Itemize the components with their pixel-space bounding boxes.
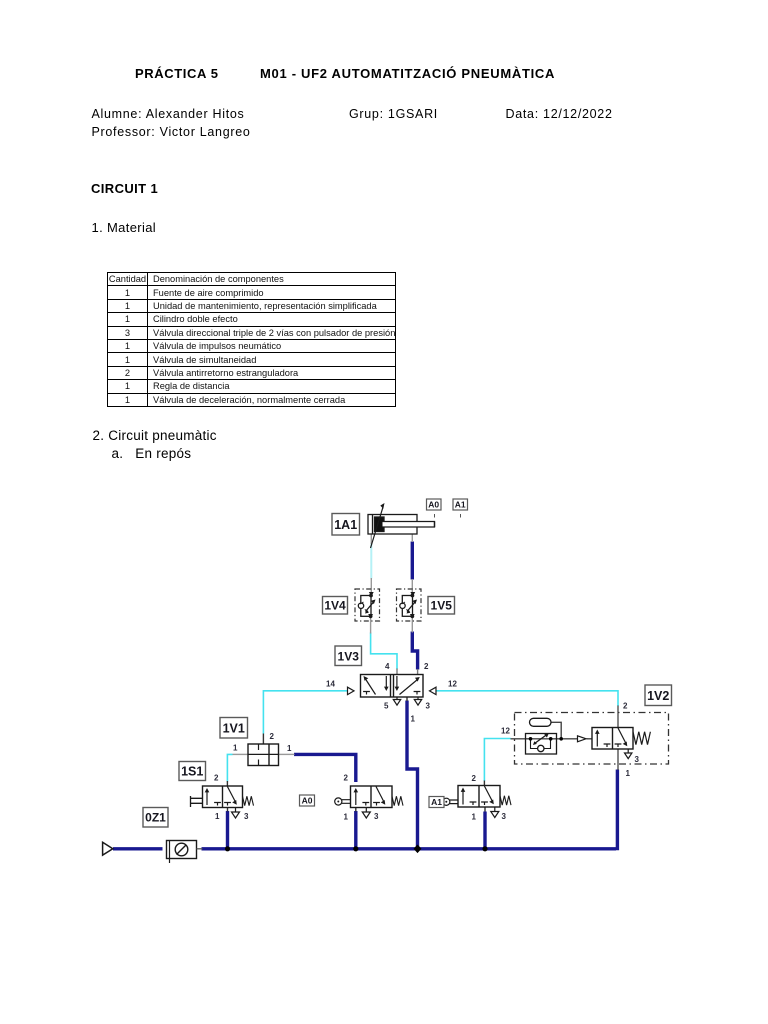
label box 1A1 bbox=[332, 514, 360, 536]
1V3 right cell flow paths bbox=[395, 676, 421, 695]
wire: 1V4 to 1V3 port 4 bbox=[371, 633, 397, 670]
svg-text:A0: A0 bbox=[302, 796, 313, 806]
stub: 1V3 port 4 bbox=[396, 669, 398, 675]
wire: supply bus main segment with riser to 1V2 port 1 bbox=[202, 770, 618, 851]
wire: pilot 14 from 1V1 port 2 bbox=[263, 691, 347, 734]
junction on bus at A0 bbox=[353, 846, 358, 851]
1V2 exhaust triangle port 3 bbox=[625, 749, 632, 759]
1V3 left cell flow paths bbox=[363, 676, 389, 695]
svg-text:2: 2 bbox=[623, 702, 628, 711]
1V5 flow control valve (dashed frame) bbox=[397, 589, 422, 621]
svg-text:3: 3 bbox=[502, 812, 507, 821]
valve 1V1 two-pressure (AND) body bbox=[248, 744, 279, 766]
1S1 return spring bbox=[243, 796, 254, 805]
svg-text:1: 1 bbox=[287, 744, 292, 753]
svg-text:2: 2 bbox=[472, 774, 477, 783]
svg-text:1: 1 bbox=[344, 813, 349, 822]
wire: cylinder right port to 1V5 bbox=[411, 542, 414, 580]
stub: 1S1 port 1 bbox=[227, 808, 229, 812]
1S1 exhaust triangle port 3 bbox=[232, 808, 240, 819]
1V2 valve left cell (pass) bbox=[595, 730, 610, 748]
svg-text:0Z1: 0Z1 bbox=[145, 811, 166, 825]
1V2 deceleration valve dashed frame bbox=[515, 713, 669, 765]
1V1 port numbers bbox=[233, 732, 292, 753]
stub: cylinder left port bbox=[370, 534, 372, 544]
wire: 1V5 to 1V3 port 2 (with jog) bbox=[412, 632, 417, 670]
wire: pilot 12 from 1V2 port 2 bbox=[436, 691, 618, 706]
wire: A1 port 2 to 1V2 port 12 bbox=[484, 739, 510, 782]
stub: 1V5 bottom bbox=[411, 616, 413, 633]
valve 1V3 5/2 impulse valve body bbox=[361, 675, 424, 698]
1V2 internal supply line bbox=[511, 722, 593, 739]
svg-text:1V1: 1V1 bbox=[223, 722, 245, 736]
1V4 flow control valve (dashed frame) bbox=[355, 589, 380, 621]
svg-text:3: 3 bbox=[244, 812, 249, 821]
A1 roller actuator bbox=[443, 798, 458, 805]
wire: A1 port 1 drop bbox=[483, 812, 486, 849]
stub: 1V1 port 2 bbox=[262, 734, 264, 745]
label box A0 bbox=[300, 795, 315, 806]
stub: 1V1 port 1 right bbox=[279, 753, 295, 755]
valve 1S1 3/2 push button body bbox=[203, 786, 243, 808]
junction on bus at A1 bbox=[482, 846, 487, 851]
svg-text:5: 5 bbox=[384, 702, 389, 711]
wire: supply bus left segment bbox=[113, 847, 163, 850]
wire: 1S1 port 1 drop bbox=[226, 811, 229, 848]
1V2 valve right cell (exhaust) bbox=[615, 728, 628, 747]
1V2 3/2 valve body bbox=[592, 728, 633, 750]
1V2 port numbers bbox=[501, 702, 640, 779]
1V2 flow control junction dots bbox=[529, 737, 563, 741]
valve A1 3/2 roller body bbox=[458, 786, 500, 808]
svg-text:1S1: 1S1 bbox=[181, 765, 203, 779]
1S1 port numbers bbox=[214, 774, 249, 822]
cylinder position arrow bbox=[371, 503, 385, 548]
stub: cylinder right port bbox=[411, 534, 413, 542]
stub: 1V3 port 1 bbox=[406, 697, 408, 701]
svg-text:1V3: 1V3 bbox=[338, 650, 360, 664]
label box 1V3 bbox=[335, 646, 362, 666]
svg-text:1: 1 bbox=[215, 812, 220, 821]
svg-text:1V2: 1V2 bbox=[647, 689, 669, 703]
1V3 exhaust triangle port 5 bbox=[393, 698, 400, 706]
svg-text:A1: A1 bbox=[455, 500, 466, 510]
A0 return spring bbox=[392, 796, 403, 805]
svg-text:2: 2 bbox=[270, 732, 275, 741]
A1 return spring bbox=[500, 796, 511, 805]
wire: 1V1 output to A0 port 2 bbox=[294, 754, 356, 782]
1S1 push button actuator bbox=[191, 796, 203, 807]
A1 left cell (pass) bbox=[461, 788, 477, 806]
label box 1S1 bbox=[179, 762, 206, 781]
svg-text:12: 12 bbox=[501, 727, 510, 736]
label box A1 (ruler mark) bbox=[453, 499, 468, 518]
label box 0Z1 bbox=[143, 808, 168, 828]
svg-text:1: 1 bbox=[411, 715, 416, 724]
1V5 body bbox=[400, 592, 417, 619]
wire: 1V1 port 1 left to 1S1 port 2 bbox=[227, 754, 232, 781]
svg-text:A1: A1 bbox=[431, 797, 442, 807]
svg-text:2: 2 bbox=[344, 774, 349, 783]
junction on bus at 1V3 line bbox=[414, 845, 422, 854]
material table bbox=[107, 272, 396, 407]
stub: 1V3 port 2 bbox=[417, 669, 419, 675]
1V2 reservoir bbox=[530, 718, 552, 726]
stub: 1V2 port 2 bbox=[617, 706, 619, 728]
svg-text:12: 12 bbox=[448, 680, 457, 689]
A1 exhaust triangle port 3 bbox=[491, 807, 499, 818]
label box 1V4 bbox=[323, 597, 348, 615]
svg-text:14: 14 bbox=[326, 680, 335, 689]
wire: 1V3 port 1 to bus (with jog) bbox=[407, 701, 418, 849]
source: compressed air supply triangle bbox=[103, 842, 113, 855]
0Z1 service unit bbox=[167, 840, 203, 863]
label box A0 (ruler mark) bbox=[427, 499, 442, 518]
A0 port numbers bbox=[344, 774, 380, 822]
svg-text:3: 3 bbox=[426, 702, 431, 711]
1V2 pilot arrow bbox=[578, 736, 587, 742]
label box A1 bbox=[429, 797, 444, 808]
stub: 1V1 port 1 left bbox=[233, 753, 249, 755]
stub: 1V4 top bbox=[370, 578, 372, 596]
cylinder 1A1 double acting bbox=[368, 515, 435, 535]
A0 right cell (exhaust) bbox=[373, 787, 385, 806]
svg-text:4: 4 bbox=[385, 662, 390, 671]
label box 1V5 bbox=[428, 597, 455, 615]
svg-text:1A1: 1A1 bbox=[334, 518, 357, 532]
svg-text:3: 3 bbox=[635, 755, 640, 764]
1V2 return spring bbox=[633, 732, 650, 745]
stub: A1 port 2 bbox=[483, 781, 485, 786]
svg-text:1: 1 bbox=[233, 744, 238, 753]
label box 1V2 bbox=[645, 685, 672, 706]
1V2 flow control body bbox=[526, 733, 557, 754]
A0 roller actuator bbox=[335, 798, 351, 805]
A1 right cell (exhaust) bbox=[481, 786, 494, 805]
A0 left cell (pass) bbox=[354, 788, 370, 806]
1V3 pilot triangle right (12) bbox=[430, 687, 437, 694]
svg-text:2: 2 bbox=[424, 662, 429, 671]
wire: A0 port 1 drop bbox=[354, 811, 357, 848]
A1 port numbers bbox=[472, 774, 507, 822]
header line bbox=[135, 66, 219, 81]
stub: A0 port 1 bbox=[355, 808, 357, 812]
svg-text:1V4: 1V4 bbox=[324, 599, 346, 613]
junction on bus at 1S1 bbox=[225, 846, 230, 851]
stub: 1V5 top bbox=[411, 579, 413, 596]
svg-text:2: 2 bbox=[214, 774, 219, 783]
1V3 port numbers bbox=[326, 662, 457, 724]
wire: cylinder left port to 1V4 (pale) bbox=[370, 544, 372, 579]
stub: 1V2 port 1 bbox=[617, 749, 619, 770]
stub: 1V4 bottom bbox=[370, 616, 372, 634]
svg-text:1: 1 bbox=[626, 769, 631, 778]
valve A0 3/2 roller body bbox=[351, 786, 393, 808]
svg-text:1V5: 1V5 bbox=[431, 599, 453, 613]
stub: 1S1 port 2 bbox=[226, 781, 228, 786]
svg-text:A0: A0 bbox=[428, 500, 439, 510]
A0 exhaust triangle port 3 bbox=[362, 808, 370, 819]
1V3 exhaust triangle port 3 bbox=[414, 698, 421, 706]
svg-text:3: 3 bbox=[374, 812, 379, 821]
stub: A1 port 1 bbox=[484, 807, 486, 812]
1S1 left cell (pass) bbox=[205, 788, 221, 806]
label box 1V1 bbox=[220, 718, 248, 739]
svg-text:1: 1 bbox=[472, 813, 477, 822]
1S1 right cell (exhaust) bbox=[224, 787, 237, 806]
1V3 pilot triangle left (14) bbox=[348, 687, 355, 694]
1V4 body bbox=[358, 592, 375, 619]
